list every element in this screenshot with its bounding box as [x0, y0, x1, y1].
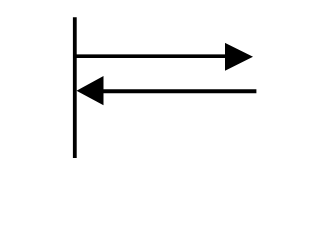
arrowhead pointing right [225, 43, 253, 71]
arrowhead pointing left [77, 76, 104, 105]
vertical line (lifeline) [73, 17, 77, 158]
wire: right-pointing arrow shaft [74, 54, 228, 58]
wire: left-pointing arrow shaft [100, 89, 256, 93]
